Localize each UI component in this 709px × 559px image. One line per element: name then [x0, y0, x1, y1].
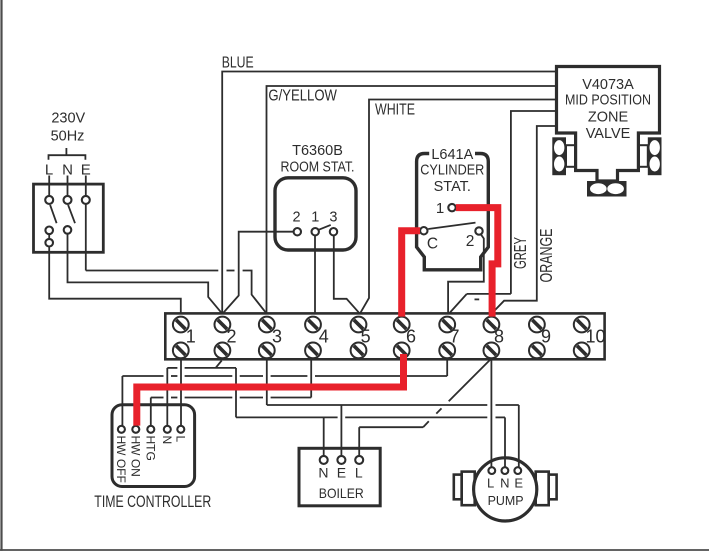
zone valve V4073A body — [557, 67, 660, 182]
terminal 5 screws — [351, 317, 367, 333]
svg-text:HW ON: HW ON — [129, 436, 143, 477]
terminal 2 screws — [215, 317, 231, 333]
svg-text:GREY: GREY — [510, 237, 530, 269]
svg-text:CYLINDER: CYLINDER — [420, 163, 484, 179]
border frame left — [0, 0, 2, 551]
svg-text:6: 6 — [406, 327, 416, 347]
valve right pipe connector — [638, 145, 647, 167]
svg-text:G/YELLOW: G/YELLOW — [268, 87, 337, 104]
svg-text:5: 5 — [361, 327, 371, 347]
wire terminal 3 to pump E and boiler E — [266, 360, 268, 405]
wire room stat 2 to terminal 2 — [223, 232, 294, 314]
svg-text:E: E — [514, 476, 523, 491]
svg-text:50Hz: 50Hz — [51, 129, 85, 145]
svg-text:4: 4 — [319, 327, 329, 347]
pump body — [462, 472, 475, 506]
svg-text:HW OFF: HW OFF — [114, 436, 128, 483]
terminal strip junction box — [165, 313, 604, 359]
red wire terminal 6 to cylinder stat C — [402, 231, 420, 317]
svg-text:BOILER: BOILER — [319, 485, 364, 501]
wire supply E to terminal 3 (with crossing breaks) — [85, 204, 87, 271]
svg-text:ORANGE: ORANGE — [536, 229, 556, 283]
wire ORANGE: valve to terminal 8 — [492, 126, 557, 313]
wire GREY: valve to terminal 7 — [511, 111, 557, 294]
terminal 3 screws — [259, 317, 275, 333]
svg-text:10: 10 — [585, 327, 605, 347]
wire terminal 2 to time controller N and pump N — [166, 368, 168, 426]
red wire cylinder stat 1 to terminal 8 — [456, 208, 498, 317]
wire neutral line to pump N and boiler N — [236, 416, 338, 418]
supply terminal stubs L N E — [48, 176, 50, 196]
valve left pipe connector — [566, 145, 576, 167]
vertical wire labels GREY / ORANGE — [510, 229, 556, 283]
svg-text:STAT.: STAT. — [434, 179, 471, 195]
svg-text:3: 3 — [272, 327, 282, 347]
cylinder stat switch lever — [428, 223, 475, 229]
terminal 8 screws — [484, 317, 500, 333]
svg-text:7: 7 — [449, 327, 459, 347]
text labels — [222, 54, 415, 118]
terminal 7 screws — [439, 317, 455, 333]
svg-text:PUMP: PUMP — [488, 494, 524, 508]
supply box 230V — [34, 184, 104, 252]
wire HW OFF to terminal 7 — [121, 376, 123, 426]
svg-text:ROOM STAT.: ROOM STAT. — [281, 160, 355, 176]
svg-text:T6360B: T6360B — [292, 143, 343, 159]
svg-text:E: E — [81, 162, 91, 179]
svg-text:1: 1 — [311, 210, 319, 226]
svg-text:MID POSITION: MID POSITION — [565, 93, 651, 109]
wire supply N to terminal 2 — [68, 234, 223, 314]
svg-text:230V: 230V — [51, 110, 85, 126]
supply terminal circles — [45, 196, 53, 204]
boiler terminals — [320, 456, 328, 464]
pump terminals — [488, 467, 495, 474]
svg-text:C: C — [427, 236, 438, 253]
terminal 1 screws — [173, 317, 189, 333]
supply switch blades — [50, 205, 57, 223]
svg-text:L: L — [487, 476, 494, 491]
svg-text:2: 2 — [226, 327, 236, 347]
terminal screws — [173, 317, 590, 359]
svg-text:N: N — [160, 436, 174, 445]
boiler labels — [318, 465, 363, 502]
terminal 6 screws — [394, 317, 410, 333]
cylinder stat terminals — [448, 204, 455, 211]
valve bottom flange — [587, 181, 627, 197]
time controller box — [112, 405, 195, 487]
terminal numbers — [186, 327, 606, 347]
svg-text:ZONE: ZONE — [588, 110, 629, 126]
svg-text:L: L — [355, 465, 363, 481]
stray dash near orange wire — [475, 298, 480, 300]
svg-text:N: N — [62, 162, 73, 179]
svg-text:2: 2 — [292, 210, 300, 226]
svg-text:E: E — [337, 465, 346, 481]
svg-text:V4073A: V4073A — [582, 77, 634, 93]
time controller terminals — [118, 426, 125, 433]
svg-text:3: 3 — [329, 210, 337, 226]
valve right flange — [648, 137, 662, 175]
svg-text:VALVE: VALVE — [586, 126, 631, 142]
svg-text:L641A: L641A — [431, 147, 473, 163]
supply bracket — [49, 155, 86, 160]
wire terminal 8 to pump L — [490, 360, 492, 468]
svg-text:TIME CONTROLLER: TIME CONTROLLER — [94, 492, 211, 511]
svg-text:1: 1 — [436, 200, 444, 217]
wire HTG to terminal 4 — [150, 398, 152, 426]
terminal 9 screws — [529, 317, 545, 333]
svg-text:8: 8 — [494, 327, 504, 347]
wire room stat 3 to terminal 5 — [334, 235, 360, 313]
wire G/YELLOW: valve to terminal 3 — [267, 86, 557, 313]
boiler box — [299, 448, 380, 506]
terminal 10 screws — [574, 317, 590, 333]
wire supply L to terminal 1 — [49, 246, 181, 313]
terminal 4 screws — [305, 317, 321, 333]
wire room stat 1 to terminal 4 — [314, 235, 316, 313]
svg-text:HTG: HTG — [144, 436, 158, 461]
wire WHITE: valve to terminal 5 — [360, 100, 556, 314]
valve left flange — [552, 137, 566, 175]
wire terminal 1 to time controller L — [180, 360, 182, 426]
svg-text:N: N — [318, 465, 328, 481]
wire cylinder stat 2 to terminal 7 — [448, 234, 484, 314]
room stat switch lever — [319, 225, 331, 230]
pump labels — [487, 476, 524, 508]
svg-text:L: L — [45, 162, 53, 179]
svg-text:L: L — [174, 436, 188, 443]
svg-text:WHITE: WHITE — [375, 102, 415, 119]
svg-text:1: 1 — [186, 327, 196, 347]
time controller labels — [94, 436, 211, 512]
svg-text:9: 9 — [541, 327, 551, 347]
wire terminal 8 to boiler L (diagonal with breaks) — [449, 359, 492, 402]
red wire HW ON to terminal 6 — [137, 354, 404, 426]
room stat T6360B box — [275, 178, 356, 250]
svg-text:N: N — [500, 476, 509, 491]
room stat terminals — [294, 228, 301, 235]
svg-text:2: 2 — [466, 233, 475, 250]
svg-text:BLUE: BLUE — [222, 54, 254, 71]
cylinder stat L641A outline — [417, 154, 489, 270]
wire BLUE: valve to terminal 2 — [222, 72, 556, 314]
border frame bottom — [0, 549, 709, 551]
